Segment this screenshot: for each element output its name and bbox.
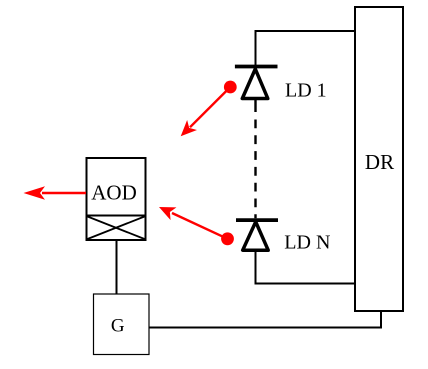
svg-text:DR: DR [365,150,394,174]
svg-text:LD 1: LD 1 [285,80,327,102]
svg-text:G: G [111,315,125,336]
svg-text:AOD: AOD [91,181,137,205]
svg-text:LD N: LD N [284,231,330,253]
